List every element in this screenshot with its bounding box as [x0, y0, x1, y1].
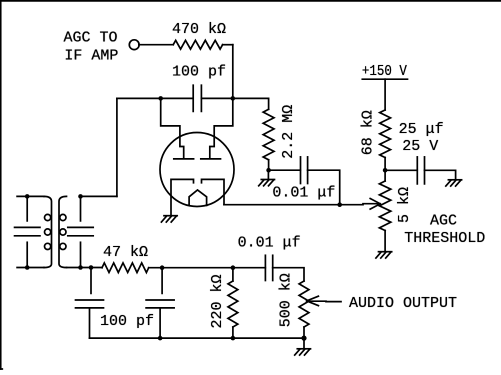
- capacitor 100 pf (AGC coupling): [172, 63, 226, 111]
- capacitor 25 μf 25 V: [399, 121, 444, 184]
- wire: R470k to AGC cap junction: [223, 45, 233, 99]
- svg-text:100 pf: 100 pf: [172, 63, 226, 80]
- wire: right plate lead: [210, 98, 233, 157]
- node: 220k bottom: [231, 336, 236, 341]
- wire: junction to 25uf: [385, 169, 417, 171]
- svg-text:470 kΩ: 470 kΩ: [172, 21, 226, 38]
- svg-text:THRESHOLD: THRESHOLD: [404, 230, 485, 247]
- capacitor: primary tuning: [15, 196, 40, 267]
- wire: 0.01uf to 500k pot: [273, 268, 304, 281]
- node: 220k top junction: [231, 265, 236, 270]
- resistor 2.2 MΩ: [263, 105, 297, 160]
- node: secondary bottom: [78, 265, 83, 270]
- wire: bottom ground rail: [90, 337, 305, 339]
- svg-text:47 kΩ: 47 kΩ: [103, 244, 148, 261]
- svg-text:68 kΩ: 68 kΩ: [360, 110, 377, 155]
- ground: 5k pot: [376, 252, 392, 258]
- svg-text:25 V: 25 V: [402, 138, 438, 155]
- svg-text:AGC TO: AGC TO: [64, 30, 118, 47]
- ground: audio return: [295, 349, 311, 355]
- svg-text:0.01 μf: 0.01 μf: [238, 235, 301, 252]
- ground: 25uf: [446, 180, 462, 186]
- resistor 47 kΩ: [102, 244, 149, 272]
- svg-text:5 kΩ: 5 kΩ: [396, 187, 413, 223]
- node: 2.2M bottom junction: [266, 168, 271, 173]
- arrow: wiper of 500k pot: [307, 296, 341, 305]
- label: AUDIO OUTPUT: [349, 295, 457, 312]
- node: AGC diode plate junction right: [231, 96, 236, 101]
- tube cathode (right diode): [202, 179, 225, 204]
- potentiometer 5 kΩ (AGC threshold): [379, 170, 413, 230]
- node: 100pf tap: [89, 265, 94, 270]
- wire: terminal to R 470k: [139, 44, 173, 46]
- resistor 68 kΩ: [360, 110, 391, 158]
- ground: left cathode: [161, 216, 177, 222]
- node: diode plate junction left: [158, 96, 163, 101]
- node: 500k bottom: [301, 336, 306, 341]
- wire: 47k to audio rail: [149, 267, 266, 269]
- svg-text:+150 V: +150 V: [362, 63, 407, 80]
- node: primary top: [25, 194, 30, 199]
- ground: 2.2M junction: [259, 170, 275, 186]
- wire: secondary bottom rail: [67, 267, 103, 269]
- tube heater: [189, 190, 207, 205]
- tube plate (left diode): [174, 158, 194, 160]
- svg-text:220 kΩ: 220 kΩ: [209, 274, 226, 328]
- wire: 5k to ground: [384, 231, 386, 252]
- svg-text:500 kΩ: 500 kΩ: [277, 273, 294, 327]
- wire: secondary top to detector rail: [81, 98, 117, 196]
- resistor 220 kΩ: [209, 268, 238, 338]
- wire: left plate lead: [161, 98, 184, 157]
- node: secondary top: [78, 194, 83, 199]
- wire: rail to 68k: [384, 79, 386, 110]
- svg-text:AGC: AGC: [430, 212, 457, 229]
- label: AGC THRESHOLD: [404, 212, 485, 247]
- tube plate (right diode): [201, 158, 221, 160]
- wire: 2.2M to junction: [268, 160, 270, 170]
- wire: detector top rail: [117, 97, 193, 99]
- node: right filter bottom: [158, 336, 163, 341]
- wire: 0.01uf to AGC line: [308, 170, 340, 205]
- tube V1 dual diode envelope: [160, 133, 234, 207]
- node: 68k / 5k / 25uf junction: [383, 168, 388, 173]
- capacitor 0.01 μf (audio coupling): [238, 235, 301, 281]
- svg-text:25 μf: 25 μf: [399, 121, 444, 138]
- wire: 68k to junction: [384, 158, 386, 171]
- svg-text:IF AMP: IF AMP: [64, 48, 118, 65]
- node: 47k right junction: [160, 265, 165, 270]
- capacitor: secondary tuning: [68, 196, 93, 267]
- wire: 500k to ground: [303, 338, 305, 348]
- power rail +150 V: [362, 63, 408, 80]
- capacitor 100 pf (left filter): [76, 268, 155, 339]
- resistor 470 kΩ: [172, 21, 226, 49]
- svg-text:2.2 MΩ: 2.2 MΩ: [280, 105, 297, 159]
- label: AGC TO IF AMP: [64, 30, 119, 65]
- terminal: AGC output to IF amp: [129, 40, 139, 50]
- wire: cathode to AGC threshold pot: [224, 204, 379, 205]
- svg-text:0.01 μf: 0.01 μf: [272, 185, 335, 202]
- wire: junction to 0.01uf: [269, 169, 301, 171]
- wire: primary top: [17, 195, 44, 197]
- capacitor 100 pf (right filter): [146, 268, 174, 338]
- wire: 25uf to ground: [425, 170, 456, 179]
- arrow: wiper of 5k pot: [370, 199, 380, 210]
- transformer T1 primary winding: [44, 196, 52, 267]
- wire: cap to 2.2M corner: [201, 98, 268, 109]
- svg-text:100 pf: 100 pf: [100, 313, 154, 330]
- wire: primary bottom: [17, 267, 44, 269]
- capacitor 0.01 μf (AGC bypass): [272, 157, 335, 202]
- transformer T1 secondary winding: [59, 196, 67, 267]
- node: primary bottom: [25, 265, 30, 270]
- node: AGC bypass junction: [337, 202, 342, 207]
- potentiometer 500 kΩ (volume): [277, 273, 309, 338]
- tube cathode (left diode): [171, 179, 194, 215]
- svg-text:AUDIO OUTPUT: AUDIO OUTPUT: [349, 295, 457, 312]
